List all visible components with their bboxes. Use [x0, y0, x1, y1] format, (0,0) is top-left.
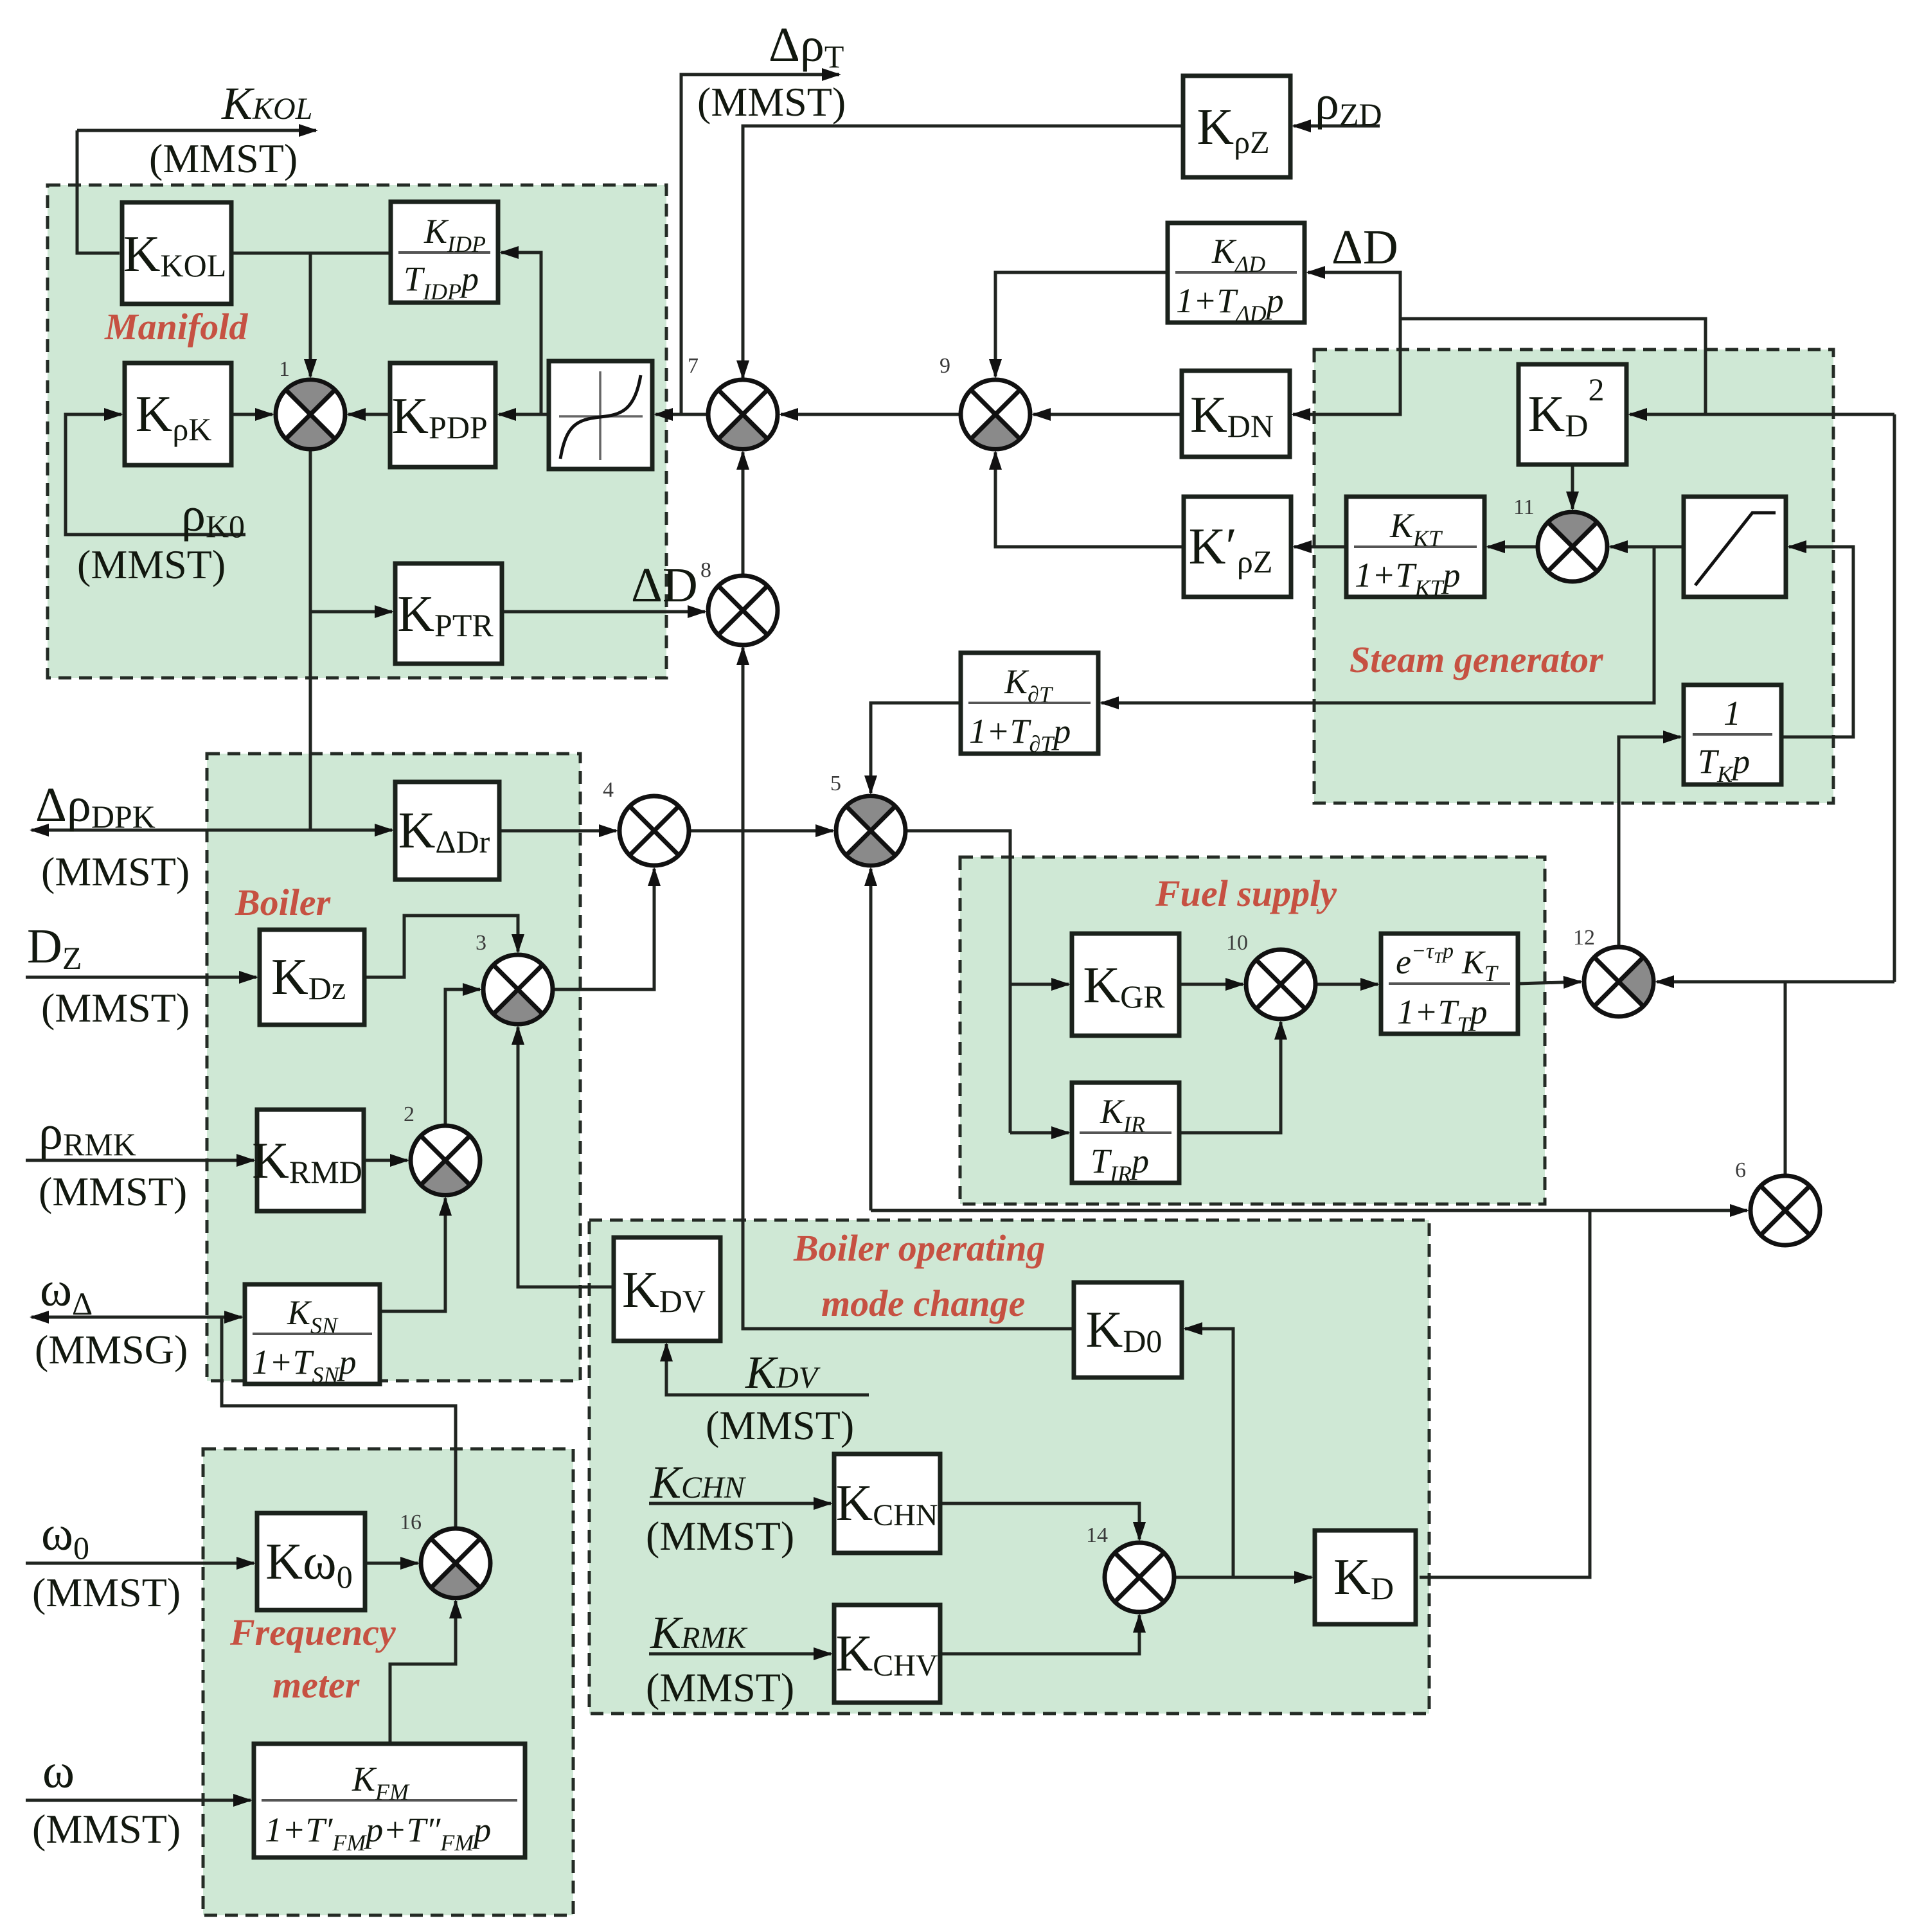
wire branch up into K_IDP right input [501, 253, 541, 414]
summing junction 12 [1584, 947, 1653, 1016]
svg-text:(MMST): (MMST) [41, 985, 190, 1031]
wire junction 6 output feedback into junction 12 right [1657, 980, 1894, 984]
wire right feedback vertical [1893, 414, 1896, 982]
wire junction 3 output up into junction 4 bottom [553, 869, 654, 989]
wire K_D line into junction 6 left [871, 1209, 1747, 1212]
block K_IDP/T_IDP_p [391, 202, 498, 305]
block NL2 rate limiter [1684, 497, 1786, 597]
wire delay block output into junction 12 left [1518, 982, 1581, 984]
wire K_rhoK output into junction 1 left [231, 413, 272, 416]
summing junction 4 [619, 796, 689, 865]
block K_dD/(1+T_dD_p) [1168, 223, 1305, 326]
svg-text:(MMST): (MMST) [697, 79, 846, 125]
block K_dT/(1+T_dT_p) [961, 653, 1098, 757]
svg-text:Boiler operating: Boiler operating [793, 1227, 1046, 1269]
svg-text:(MMST): (MMST) [706, 1403, 854, 1448]
svg-text:(MMST): (MMST) [77, 542, 226, 587]
svg-text:10: 10 [1226, 931, 1248, 955]
wire into K_dDr left input [310, 829, 392, 832]
wire K_D line up into junction 5 bottom [869, 869, 873, 1210]
wire K_dDr output into junction 4 left [499, 829, 616, 833]
wire rho_ZD input into K_rhoZ right [1294, 125, 1380, 128]
wire omega_Delta into K_SN left input [222, 1316, 242, 1319]
dashed region Boiler [207, 754, 580, 1381]
block K_PTR [395, 563, 502, 664]
wire junction 4 output into junction 5 left [689, 829, 833, 833]
wire K_IR output up into junction 10 bottom [1179, 1022, 1281, 1133]
block K_IR/(T_IR_p) [1072, 1083, 1179, 1187]
block delay e^-tau_T_p K_T/(1+T_T_p) [1381, 934, 1518, 1038]
svg-text:16: 16 [400, 1511, 422, 1534]
summing junction 14 [1105, 1543, 1174, 1612]
wire K_RMD output into junction 2 left [364, 1159, 407, 1162]
wire tap down into K_KOL input [77, 130, 120, 253]
summing junction 7 [708, 380, 778, 449]
block K_Dz [260, 930, 364, 1025]
svg-text:(MMST): (MMST) [646, 1513, 794, 1559]
wire junction 6 output up [1784, 982, 1787, 1176]
wire branch down into K_dT right input [1101, 547, 1654, 703]
block K_KOL [122, 202, 231, 304]
block K_CHN [834, 1454, 940, 1553]
wire rho_K0(MMST) input up into K_rhoK [66, 414, 245, 535]
svg-text:1+T∂Tp: 1+T∂Tp [969, 712, 1071, 757]
dashed region Frequency meter [203, 1449, 573, 1915]
wire NL2 output into junction 11 right [1610, 545, 1684, 549]
svg-text:5: 5 [830, 772, 841, 795]
block K_CHV [834, 1605, 940, 1703]
summing junction 2 [411, 1126, 480, 1195]
block K_rhoZ [1183, 76, 1290, 177]
dashed region Steam generator [1314, 350, 1833, 803]
summing junction 9 [961, 380, 1030, 449]
block K_rhoK [125, 363, 231, 465]
svg-text:(MMST): (MMST) [41, 849, 190, 894]
block K_FM/(1+T'_FM_p+T''_FM_p) [254, 1744, 525, 1857]
svg-text:ω: ω [42, 1744, 75, 1798]
wire junction 7 output into NL1 right [655, 413, 708, 416]
svg-text:(MMST): (MMST) [32, 1570, 181, 1615]
wire Dz(MMST) input into K_Dz left [26, 976, 256, 979]
wire junction 10 output into delay block left [1315, 983, 1378, 986]
wire branch down into junction 1 top [309, 253, 312, 377]
wire K_dD output down into junction 9 top [995, 272, 1168, 377]
summing junction 1 [276, 380, 345, 449]
block K_DV [614, 1237, 720, 1341]
wire junction 16 output up to omega_Delta line [222, 1317, 456, 1529]
wire K_Dz output into junction 3 top [364, 916, 518, 977]
svg-text:Boiler: Boiler [235, 882, 331, 923]
svg-text:1+TΔDp: 1+TΔDp [1176, 281, 1284, 326]
svg-text:(MMST): (MMST) [149, 136, 298, 181]
wire junction 9 output into junction 7 right [781, 413, 961, 416]
wire K_dT output down into junction 5 top [871, 703, 961, 793]
wire delta-rho_T tap up and right arrow [681, 75, 839, 414]
svg-text:(MMST): (MMST) [32, 1806, 181, 1852]
wire K_KOL(MMST) tap with right arrow [77, 129, 316, 132]
svg-text:6: 6 [1735, 1158, 1746, 1182]
svg-text:1+TSNp: 1+TSNp [252, 1343, 357, 1388]
summing junction 6 [1750, 1176, 1820, 1245]
block K_D [1315, 1530, 1416, 1624]
wire K'_rhoZ output up into junction 9 bottom [995, 452, 1184, 547]
wire junction 5 output right and down [905, 831, 1010, 1133]
svg-text:mode change: mode change [821, 1282, 1025, 1324]
wire branch into K_GR left input [1010, 983, 1069, 986]
wire K_CHN output down into junction 14 top [940, 1503, 1139, 1539]
svg-text:9: 9 [940, 354, 950, 378]
wire upper feedback loop into K_DN right input [1293, 319, 1706, 414]
dashed region Manifold [48, 185, 666, 678]
wire K_D output up to feedback line [1420, 1210, 1590, 1577]
summing junction 16 [421, 1529, 490, 1598]
wire delta-rho_DPK output arrow left [31, 829, 310, 832]
svg-text:2: 2 [404, 1103, 414, 1126]
wire junction 12 output up into 1/TKp left [1619, 737, 1680, 946]
block NL1 saturation nonlinearity [549, 361, 652, 469]
block K_DN [1182, 371, 1290, 457]
wire K_KT output into K'_rhoZ right [1294, 545, 1346, 549]
wire junction 11 output into K_KT right [1488, 545, 1538, 549]
svg-text:Frequency: Frequency [229, 1611, 396, 1653]
wire K_D0 output up into junction 8 bottom [743, 648, 1074, 1329]
wire branch into K_PTR left input [310, 610, 392, 614]
wire right feedback into K_D2 right input [1630, 413, 1894, 416]
svg-text:4: 4 [603, 778, 614, 802]
block K_KT/(1+T_KT_p) [1346, 497, 1484, 601]
block K_SN/(1+T_SN_p) [245, 1284, 380, 1388]
wire omega_0(MMST) input into K_omega0 left [26, 1562, 254, 1565]
svg-text:12: 12 [1573, 926, 1595, 950]
block K_D0 [1074, 1282, 1182, 1378]
svg-text:8: 8 [700, 558, 711, 582]
svg-text:(MMSG): (MMSG) [35, 1327, 188, 1372]
svg-text:(MMST): (MMST) [39, 1169, 187, 1214]
wire K_PTR output (DeltaD) into junction 8 left [502, 610, 705, 614]
svg-text:ΔD: ΔD [631, 558, 698, 612]
wire K_RMK(MMST) input into K_CHV left [649, 1653, 831, 1656]
summing junction 10 [1246, 950, 1315, 1019]
wire omega(MMST) input into K_FM left [26, 1799, 251, 1802]
summing junction 8 [708, 576, 778, 645]
block 1/(T_K_p) [1684, 685, 1781, 787]
wire K_DV(MMST) input up into K_DV bottom [666, 1344, 869, 1395]
wire NL1 output into K_PDP right [499, 413, 549, 416]
dashed region Fuel supply [960, 857, 1545, 1204]
svg-text:Manifold: Manifold [104, 306, 248, 348]
wire feedback into K_dD right (DeltaD) [1308, 272, 1400, 319]
wire K_D2 output down into junction 11 top [1571, 465, 1574, 509]
wire branch up into K_D0 right input [1185, 1329, 1233, 1577]
svg-text:1+TKTp: 1+TKTp [1355, 556, 1461, 601]
svg-text:(MMST): (MMST) [646, 1665, 794, 1710]
block K_PDP [390, 363, 495, 467]
wire junction 14 output into K_D left [1174, 1576, 1312, 1579]
wire K_omega0 output into junction 16 left [365, 1562, 418, 1565]
wire rho_RMK(MMST) input into K_RMD left [26, 1159, 254, 1162]
block K_omega0 [257, 1513, 365, 1610]
svg-text:3: 3 [476, 931, 486, 955]
block K_RMD [252, 1110, 364, 1211]
block K_GR [1072, 934, 1179, 1036]
svg-text:11: 11 [1513, 495, 1535, 519]
summing junction 11 [1538, 512, 1607, 581]
wire junction 8 output up into junction 7 bottom [742, 452, 745, 576]
svg-text:1: 1 [279, 357, 290, 381]
block K'_rhoZ [1184, 497, 1291, 597]
wire K_SN output up into junction 2 bottom [380, 1198, 445, 1311]
dashed region Boiler operating mode change [589, 1220, 1429, 1714]
wire 1/TKp output up into NL2 right [1781, 547, 1853, 737]
wire K_DN output into junction 9 right [1033, 413, 1182, 416]
svg-text:meter: meter [272, 1664, 360, 1706]
wire junction 2 output into junction 3 left [445, 989, 480, 1126]
summing junction 3 [483, 955, 553, 1024]
svg-text:7: 7 [688, 354, 699, 378]
wire K_KOL output to K_IDP left edge [231, 252, 391, 255]
summing junction 5 [836, 796, 905, 865]
wire K_PDP output into junction 1 right [348, 413, 390, 416]
wire K_CHN(MMST) input into K_CHN left [649, 1502, 831, 1505]
svg-text:1+TTp: 1+TTp [1397, 993, 1488, 1038]
wire K_rhoZ output down into junction 7 top [743, 126, 1183, 378]
svg-text:1: 1 [1724, 694, 1741, 732]
svg-text:Steam generator: Steam generator [1349, 639, 1603, 680]
wire K_GR output into junction 10 left [1179, 983, 1243, 986]
svg-text:14: 14 [1086, 1523, 1108, 1547]
block K_dDr [395, 782, 499, 880]
svg-text:ΔD: ΔD [1332, 220, 1398, 274]
wire branch into K_IR left input [1010, 1131, 1069, 1135]
wire junction 1 output down [309, 449, 312, 830]
wire K_FM output up into junction 16 bottom [390, 1601, 456, 1744]
wire omega_Delta output arrow left (MMSG) [31, 1316, 222, 1319]
svg-text:Fuel supply: Fuel supply [1155, 873, 1337, 914]
block K_D^2 [1519, 364, 1626, 465]
wire K_CHV output up into junction 14 bottom [940, 1615, 1139, 1654]
wire K_DV output up into junction 3 bottom [518, 1027, 614, 1287]
